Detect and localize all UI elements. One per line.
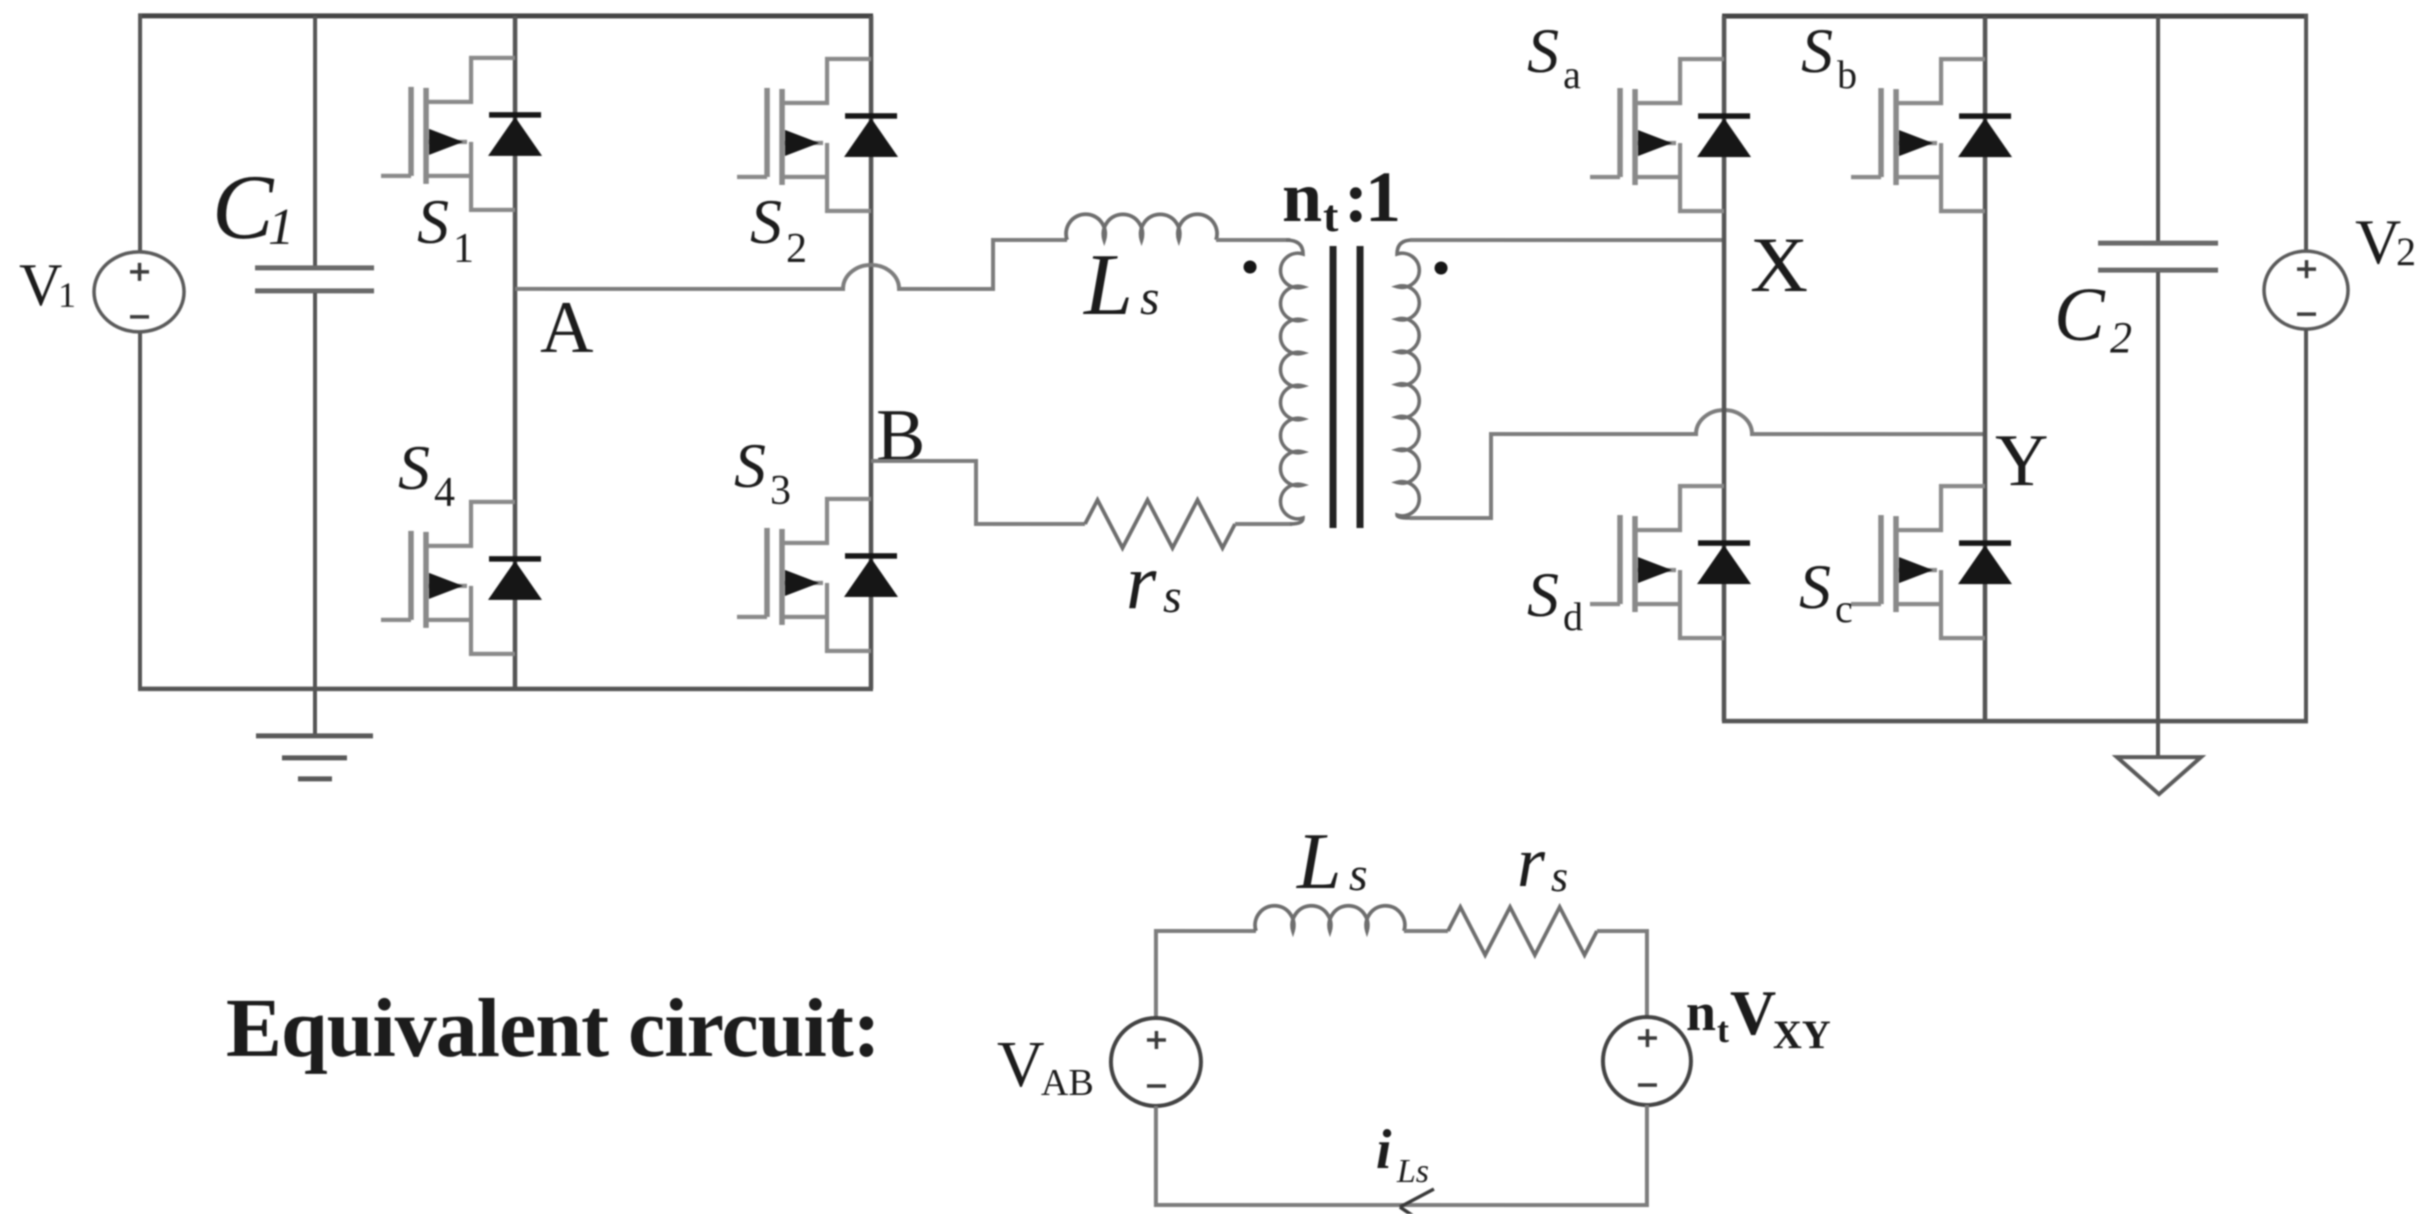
wire resistor rs to source ntVXY (1597, 929, 1647, 933)
current arrow iLs (1400, 1189, 1437, 1214)
wire inductor Ls to transformer primary (1216, 238, 1290, 242)
label ntVXY (1686, 977, 1831, 1057)
label rs (1126, 538, 1182, 625)
svg-text:AB: AB (1041, 1062, 1094, 1104)
capacitor C1 (255, 16, 374, 734)
transformer polarity dot (primary) (1244, 261, 1257, 274)
svg-text:S: S (1527, 15, 1559, 86)
svg-text:r: r (1126, 538, 1157, 625)
wire right bridge bottom rail (1722, 719, 2308, 724)
wire inductor to resistor (equivalent) (1404, 929, 1448, 933)
voltage source VAB (1111, 929, 1201, 1207)
svg-text:S: S (750, 186, 782, 257)
svg-text:S: S (734, 430, 766, 501)
label VAB (997, 1028, 1094, 1104)
label C1 (212, 156, 294, 258)
transistor Sa (1590, 59, 1751, 211)
svg-text:L: L (1296, 818, 1342, 906)
svg-text:2: 2 (786, 226, 807, 272)
svg-text:t: t (1323, 190, 1339, 241)
resistor rs (1085, 500, 1235, 548)
resistor rs (equivalent) (1448, 907, 1597, 955)
svg-text:a: a (1563, 52, 1581, 97)
transformer secondary winding (1397, 240, 1419, 518)
transistor Sd (1590, 486, 1751, 638)
label Sa (1527, 15, 1581, 97)
svg-text:C: C (212, 156, 275, 258)
svg-text:V: V (2355, 206, 2401, 277)
svg-text:A: A (540, 287, 593, 369)
label C2 (2054, 273, 2132, 362)
wire right bridge leg 2 (Sb/Sc) (1983, 16, 1988, 721)
transistor S3 (737, 499, 898, 651)
svg-text:n: n (1282, 157, 1322, 237)
transistor Sc (1851, 486, 2012, 638)
svg-text:S: S (1801, 15, 1833, 86)
label Sc (1799, 551, 1853, 631)
svg-text:Y: Y (1995, 420, 2048, 502)
svg-text:V: V (1730, 977, 1776, 1048)
svg-text:L: L (1082, 237, 1133, 334)
wire right bridge top rail (1722, 14, 2308, 19)
svg-text:s: s (1551, 852, 1568, 901)
svg-text:s: s (1349, 848, 1368, 901)
svg-text:1: 1 (268, 199, 294, 256)
label S4 (398, 432, 455, 516)
wire node B to resistor rs (871, 461, 1085, 524)
svg-text:C: C (2054, 273, 2106, 357)
svg-text:c: c (1835, 586, 1853, 631)
svg-text:V: V (997, 1028, 1045, 1101)
svg-text:S: S (1527, 559, 1559, 630)
svg-text:V: V (19, 252, 62, 318)
wire left bridge bottom rail (138, 687, 873, 692)
transistor Sb (1851, 59, 2012, 211)
ground (right) (2117, 757, 2201, 794)
wire node A to inductor Ls (hop over leg 2) (515, 240, 1067, 289)
svg-text:3: 3 (770, 468, 791, 514)
svg-text:s: s (1140, 269, 1159, 325)
inductor Ls (1066, 214, 1217, 240)
wire left bridge leg 2 (S2/S3) (869, 16, 874, 689)
label S2 (750, 186, 807, 272)
label Sd (1527, 559, 1583, 639)
wire left bridge leg 1 (S1/S4) (513, 16, 518, 689)
svg-text:n: n (1686, 982, 1716, 1042)
svg-text:i: i (1376, 1119, 1392, 1181)
label V1 (19, 252, 76, 318)
svg-text:r: r (1517, 822, 1546, 902)
svg-text:Ls: Ls (1396, 1153, 1429, 1190)
svg-text:2: 2 (2396, 229, 2416, 274)
transformer polarity dot (secondary) (1435, 262, 1448, 275)
wire equivalent circuit bottom return (1156, 1203, 1647, 1207)
svg-text:b: b (1837, 52, 1857, 97)
label Ls (equivalent) (1296, 818, 1368, 906)
ground (left) (256, 736, 373, 779)
wire VAB to inductor Ls (equivalent) (1156, 929, 1256, 933)
label rs (equivalent) (1517, 822, 1568, 902)
label nt:1 (1282, 157, 1401, 241)
svg-text:B: B (876, 395, 925, 477)
transistor S4 (381, 502, 542, 654)
svg-text:2: 2 (2110, 313, 2132, 362)
svg-text:1: 1 (58, 275, 76, 315)
label S3 (734, 430, 791, 514)
voltage source V1 (94, 14, 184, 691)
transformer core (1333, 246, 1360, 528)
transformer primary winding (1281, 240, 1304, 524)
svg-text:Equivalent circuit:: Equivalent circuit: (226, 982, 880, 1075)
transistor S2 (737, 59, 898, 211)
wire transformer secondary top to node X (1410, 238, 1726, 242)
svg-text:4: 4 (434, 470, 455, 516)
svg-text:XY: XY (1773, 1012, 1831, 1057)
wire right bridge leg 1 (Sa/Sd) (1722, 16, 1727, 721)
label S1 (417, 186, 474, 272)
svg-text:t: t (1717, 1010, 1729, 1050)
voltage source V2 (2264, 14, 2348, 723)
svg-text:d: d (1563, 594, 1583, 639)
svg-text:X: X (1750, 221, 1808, 308)
wire left bridge top rail (138, 13, 873, 18)
inductor Ls (equivalent) (1255, 906, 1405, 931)
svg-text:1: 1 (1365, 157, 1401, 237)
svg-text:1: 1 (453, 226, 474, 272)
svg-text:s: s (1163, 570, 1182, 623)
wire transformer secondary bottom to node Y (hop over Sa leg) (1410, 410, 1987, 518)
svg-text:S: S (417, 186, 449, 257)
label Ls (1082, 237, 1159, 334)
label V2 (2355, 206, 2416, 277)
label iLs (1376, 1119, 1429, 1190)
voltage source ntVXY (1603, 929, 1691, 1207)
svg-text:S: S (398, 432, 430, 503)
svg-text:S: S (1799, 551, 1831, 622)
wire resistor rs to transformer primary (1235, 522, 1292, 526)
capacitor C2 (2098, 16, 2218, 757)
transistor S1 (381, 58, 542, 210)
label Sb (1801, 15, 1857, 97)
